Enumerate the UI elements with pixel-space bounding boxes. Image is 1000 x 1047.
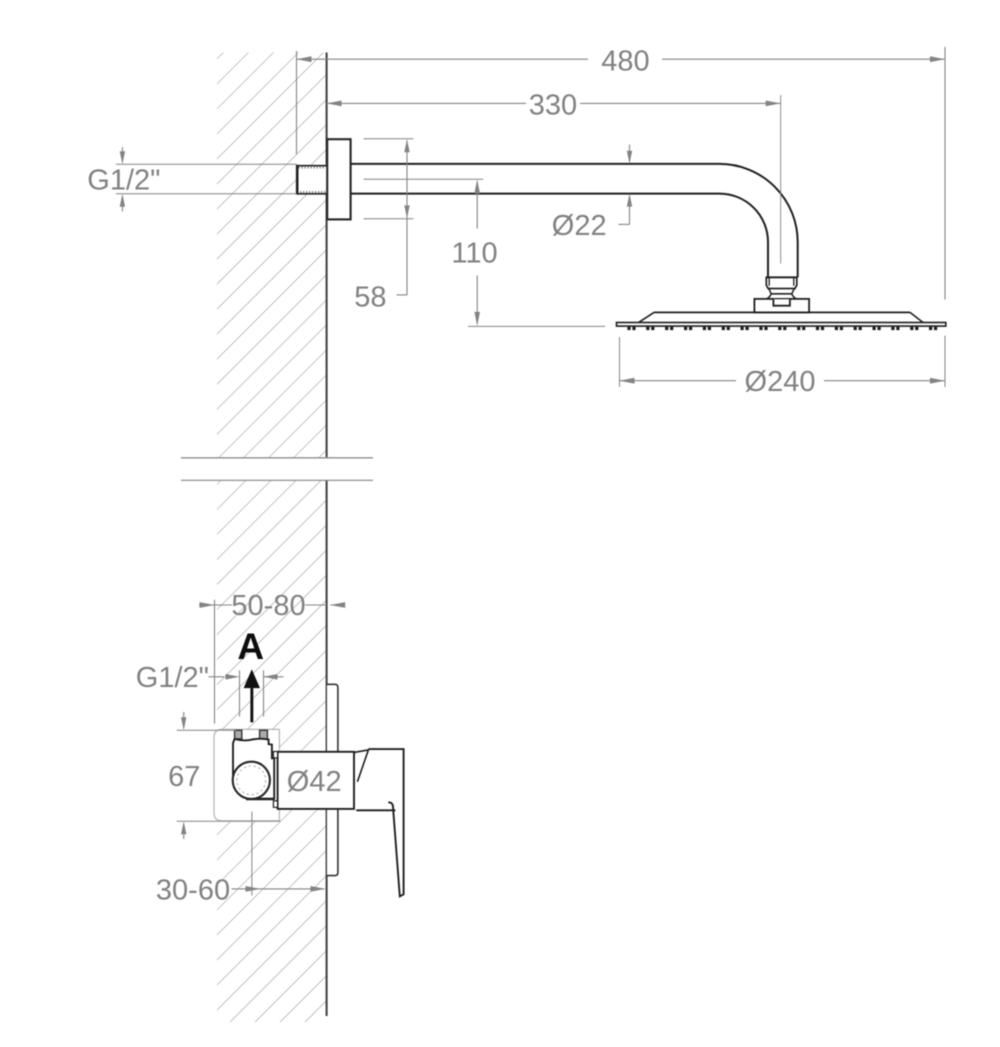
dim 330 line	[327, 102, 526, 104]
wall break line upper	[181, 457, 373, 459]
dim 50-80 extension line	[214, 600, 216, 724]
svg-text:Ø240: Ø240	[745, 366, 816, 398]
dim 330 centerline extension	[780, 95, 782, 264]
valve bottom thick edge	[246, 798, 274, 801]
connector waist	[769, 289, 794, 294]
cartridge circle	[233, 762, 270, 799]
concealed cover plate	[327, 684, 338, 875]
svg-text:480: 480	[601, 46, 649, 78]
trim sleeve O42 cylinder	[278, 752, 354, 809]
dim O22 tick	[619, 223, 630, 225]
dim 480 extension line right	[944, 47, 946, 300]
dim G1/2 bottom extension lines	[239, 670, 241, 716]
wall face line lower	[326, 481, 328, 1016]
dim 67 extension top	[177, 729, 236, 731]
pipe end line	[766, 276, 797, 278]
valve supply stub left	[235, 730, 242, 739]
wall flange escutcheon	[327, 139, 350, 219]
threaded nipple G1/2 inside wall	[297, 165, 327, 195]
dim G1/2 top extension lines	[116, 163, 297, 165]
dim 110 line lower	[476, 276, 478, 324]
dim 480 extension line left	[296, 51, 298, 154]
shower arm pipe outer edge	[351, 164, 798, 278]
dim O22 upper arrow	[629, 145, 631, 162]
svg-text:A: A	[237, 626, 264, 667]
svg-text:67: 67	[168, 761, 200, 793]
dim O240 line	[620, 380, 737, 382]
shower head nozzles	[627, 327, 630, 330]
dim G1/2 top arrows	[121, 147, 123, 162]
dim 58 line	[406, 141, 408, 296]
cartridge inner dashed circle	[237, 766, 266, 795]
dim 67 extension bottom	[177, 820, 281, 822]
dim 30-60 line + arrows	[232, 888, 325, 890]
connector flare	[767, 294, 797, 299]
dim G1/2 bottom line + arrows	[209, 676, 225, 678]
recess box white backing	[214, 729, 279, 820]
dim 58 leader tick	[397, 294, 408, 296]
shower head top edge	[654, 311, 910, 313]
dim O22 lower arrow	[629, 196, 631, 224]
direction arrow shaft	[250, 688, 253, 722]
shower head right bevel	[910, 312, 923, 322]
svg-text:330: 330	[529, 90, 577, 122]
handle lever outline	[368, 749, 403, 896]
direction arrow head	[244, 669, 260, 688]
dim 67 arrows	[183, 712, 185, 728]
wall face line upper	[326, 53, 328, 458]
arm connector nut	[766, 277, 797, 288]
shower head plate	[617, 323, 946, 327]
valve centerline	[251, 812, 253, 896]
wall section upper (hatched)	[217, 53, 327, 458]
svg-text:58: 58	[354, 282, 386, 314]
wall section lower (hatched)	[217, 481, 327, 1022]
thread ticks	[298, 166, 300, 169]
svg-text:50-80: 50-80	[231, 590, 305, 622]
recess box outline	[214, 729, 279, 820]
svg-text:30-60: 30-60	[156, 874, 230, 906]
handle base bottom	[356, 809, 395, 811]
valve supply stub right	[260, 730, 268, 739]
svg-text:G1/2": G1/2"	[136, 662, 209, 694]
nut facet lines	[768, 278, 770, 286]
dim 110 extension line bottom	[468, 325, 605, 327]
svg-text:Ø42: Ø42	[287, 766, 342, 798]
sleeve tab top	[273, 752, 277, 758]
svg-text:G1/2": G1/2"	[87, 164, 160, 196]
svg-text:Ø22: Ø22	[552, 210, 607, 242]
shower head left bevel	[639, 312, 655, 322]
dim 110 line upper	[476, 182, 478, 229]
wall break line lower	[181, 479, 373, 481]
head mounting block	[754, 299, 809, 313]
dim 58 extension mid (pipe axis)	[364, 178, 484, 180]
sleeve tab bottom	[273, 801, 277, 807]
shower arm pipe inner edge	[351, 194, 768, 278]
dim 50-80 line + arrows	[199, 604, 232, 606]
handle cone adapter	[354, 750, 368, 782]
dim 58 extension top	[364, 138, 414, 140]
dim O240 extension right	[944, 336, 946, 388]
dim 58 extension bottom	[364, 218, 414, 220]
dim 480 line	[297, 58, 589, 60]
valve body	[233, 739, 274, 799]
mounting block notch	[773, 299, 790, 306]
svg-text:110: 110	[451, 238, 497, 270]
dim O240 extension left	[619, 337, 621, 387]
